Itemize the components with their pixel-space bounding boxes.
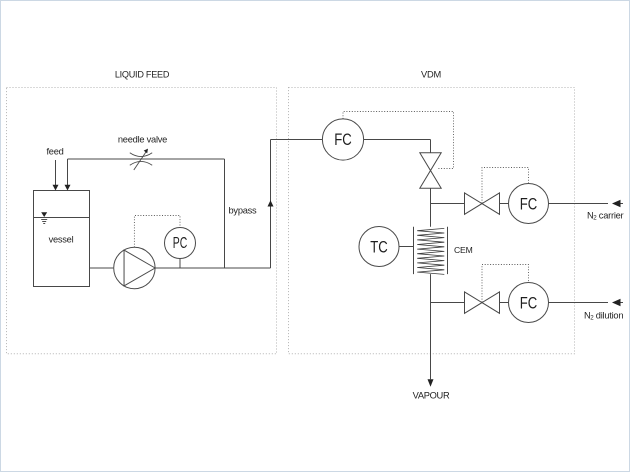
svg-text:FC: FC (520, 294, 538, 313)
svg-text:TC: TC (370, 238, 388, 257)
svg-text:VDM: VDM (421, 70, 441, 80)
svg-text:bypass: bypass (229, 205, 258, 215)
svg-text:LIQUID FEED: LIQUID FEED (115, 70, 170, 80)
svg-text:N2 dilution: N2 dilution (584, 310, 623, 321)
svg-text:N2 carrier: N2 carrier (587, 210, 624, 221)
svg-text:FC: FC (520, 195, 538, 214)
svg-text:VAPOUR: VAPOUR (413, 391, 450, 401)
svg-text:vessel: vessel (49, 234, 74, 244)
svg-text:PC: PC (173, 235, 188, 252)
svg-text:FC: FC (334, 130, 352, 149)
svg-text:feed: feed (46, 147, 63, 157)
svg-text:needle valve: needle valve (118, 134, 167, 144)
svg-text:CEM: CEM (454, 245, 473, 255)
